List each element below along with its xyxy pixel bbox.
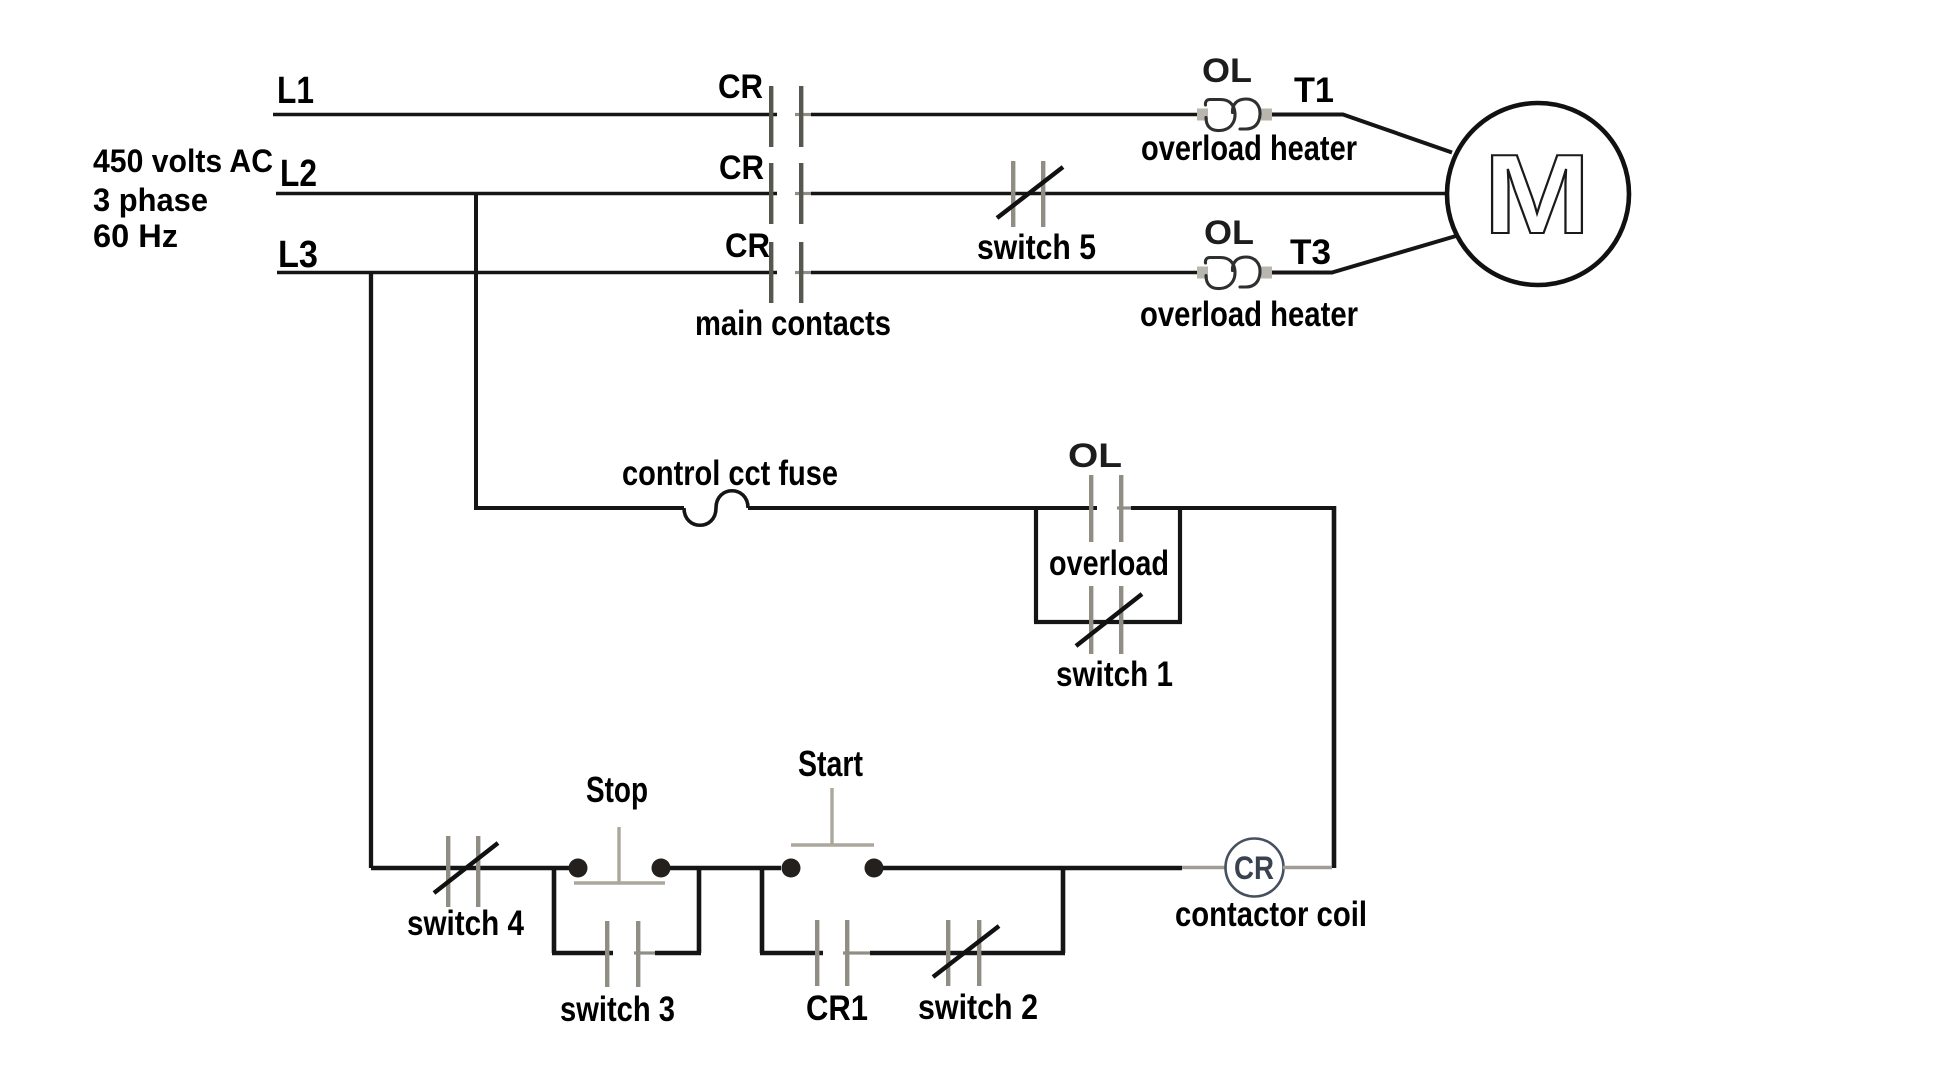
svg-text:CR: CR xyxy=(1234,850,1274,886)
svg-text:Start: Start xyxy=(798,743,863,784)
overload bypass box right vertical xyxy=(1178,508,1182,622)
CR1 branch right vertical xyxy=(1061,866,1066,953)
wire L1 line left segment xyxy=(273,113,777,116)
wire control rung right of OL to corner xyxy=(1131,506,1334,510)
contact CR main L1 bar 2 xyxy=(799,86,803,147)
switch 3 NO contact bar 2 xyxy=(636,921,640,987)
CR1 NO contact bar 2 xyxy=(845,920,849,986)
svg-text:CR: CR xyxy=(719,149,764,187)
svg-text:switch 4: switch 4 xyxy=(407,904,524,943)
switch 4 NC contact bar 2 xyxy=(476,836,480,907)
wire L2 line left segment xyxy=(276,192,777,195)
switch 5 slash xyxy=(997,167,1063,218)
wire L2 tick after CR contact xyxy=(795,192,813,195)
wire L3 tick after CR contact xyxy=(795,271,813,274)
svg-text:OL: OL xyxy=(1068,437,1122,475)
svg-text:switch 5: switch 5 xyxy=(977,228,1096,267)
contact OL control bar 1 xyxy=(1089,475,1093,542)
pushbutton Stop stem xyxy=(617,827,620,883)
pushbutton Stop bar xyxy=(574,881,665,884)
switch 4 slash xyxy=(434,843,498,893)
svg-text:OL: OL xyxy=(1202,52,1252,90)
CR1 branch left vertical xyxy=(760,866,765,953)
switch 3 branch left vertical xyxy=(552,866,557,953)
CR1 NO contact bar 1 xyxy=(815,920,819,986)
wire L1 right segment to motor xyxy=(1270,115,1452,153)
pushbutton Stop terminal right xyxy=(652,859,671,878)
wire L3 line left segment xyxy=(277,271,777,274)
switch 4 NC contact bar 1 xyxy=(446,836,450,907)
wire tick after OL contact xyxy=(1117,506,1135,509)
wire bottom rung xyxy=(371,866,569,871)
wire control rung right of fuse xyxy=(748,506,1097,510)
wire grey stub left of coil xyxy=(1182,866,1226,869)
switch 3 branch wire right xyxy=(655,951,701,956)
svg-text:contactor coil: contactor coil xyxy=(1175,895,1367,934)
svg-text:60 Hz: 60 Hz xyxy=(93,218,178,254)
switch 2 slash xyxy=(933,926,999,977)
switch 1 NC contact bar 2 xyxy=(1119,586,1123,654)
switch 3 tick xyxy=(634,951,658,954)
fuse control cct fuse xyxy=(684,491,748,526)
svg-text:control cct fuse: control cct fuse xyxy=(622,454,838,493)
svg-text:CR: CR xyxy=(725,227,770,265)
wire control rung left of fuse xyxy=(474,506,684,510)
contact CR main L2 bar 2 xyxy=(799,163,803,224)
svg-text:CR: CR xyxy=(718,68,763,106)
svg-text:M: M xyxy=(1484,131,1591,257)
pushbutton Start terminal left xyxy=(782,859,801,878)
svg-text:switch 2: switch 2 xyxy=(918,988,1038,1027)
svg-text:CR1: CR1 xyxy=(806,989,868,1028)
switch 2 NC contact bar 1 xyxy=(946,920,950,986)
svg-text:overload heater: overload heater xyxy=(1141,129,1357,168)
pushbutton Stop terminal left xyxy=(569,859,588,878)
switch 3 branch right vertical xyxy=(697,866,702,953)
switch 5 NC contact bar 2 xyxy=(1041,161,1045,227)
svg-text:L1: L1 xyxy=(277,70,314,112)
motor M circle xyxy=(1447,103,1629,285)
svg-text:T3: T3 xyxy=(1290,233,1331,272)
wire L2 segment to motor xyxy=(811,192,1445,195)
wire L3 right segment to motor xyxy=(1270,236,1456,273)
wire right vertical to coil rung xyxy=(1332,506,1337,868)
overload heater symbol on L1 xyxy=(1197,99,1272,131)
wire L1 tick after CR contact xyxy=(795,113,813,116)
svg-text:OL: OL xyxy=(1204,214,1254,252)
wire rung from Start to coil xyxy=(883,866,1182,871)
svg-text:Stop: Stop xyxy=(586,769,648,810)
pushbutton Start bar xyxy=(791,843,874,846)
overload bypass box bottom wire xyxy=(1034,620,1182,624)
switch 3 branch wire left xyxy=(552,951,613,956)
switch 2 NC contact bar 2 xyxy=(977,920,981,986)
svg-text:450 volts AC: 450 volts AC xyxy=(93,143,273,179)
svg-text:T1: T1 xyxy=(1294,71,1334,110)
wire grey stub right of coil xyxy=(1283,866,1332,869)
wire L3 middle segment xyxy=(811,271,1199,274)
contact CR main L1 bar 1 xyxy=(769,86,773,147)
switch 3 NO contact bar 1 xyxy=(605,921,609,987)
CR1 branch wire right xyxy=(870,951,1065,956)
switch 5 NC contact bar 1 xyxy=(1011,161,1015,227)
svg-text:main contacts: main contacts xyxy=(695,304,891,343)
coil CR circle xyxy=(1226,839,1284,897)
CR1 branch wire left xyxy=(760,951,823,956)
svg-text:L3: L3 xyxy=(278,234,318,276)
svg-text:overload heater: overload heater xyxy=(1140,295,1358,334)
overload heater symbol on L3 xyxy=(1197,257,1272,289)
wire L1 middle segment xyxy=(811,113,1199,116)
svg-text:overload: overload xyxy=(1049,544,1169,583)
contact CR main L2 bar 1 xyxy=(769,163,773,224)
node: vertical drop from L2 to control circuit xyxy=(474,194,478,509)
switch 1 NC contact bar 1 xyxy=(1089,586,1093,654)
pushbutton Start terminal right xyxy=(865,859,884,878)
contact CR main L3 bar 1 xyxy=(769,242,773,303)
node: vertical drop from L3 to bottom rung xyxy=(369,273,373,869)
switch 1 slash xyxy=(1076,594,1142,646)
contact CR main L3 bar 2 xyxy=(799,242,803,303)
overload bypass box left vertical xyxy=(1034,508,1038,622)
pushbutton Start stem xyxy=(830,788,833,845)
contact OL control bar 2 xyxy=(1119,475,1123,542)
svg-text:L2: L2 xyxy=(280,153,317,195)
wire rung between Stop and Start xyxy=(670,866,781,871)
svg-text:3 phase: 3 phase xyxy=(93,182,208,218)
CR1 tick xyxy=(843,951,873,954)
svg-text:switch 3: switch 3 xyxy=(560,990,675,1029)
svg-text:switch 1: switch 1 xyxy=(1056,655,1173,694)
